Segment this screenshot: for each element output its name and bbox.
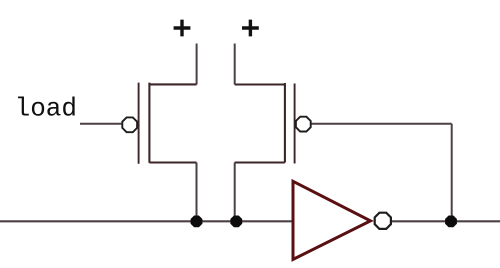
op-amp U1 inverter triangle <box>293 181 391 259</box>
wire: load gate wire <box>80 123 121 125</box>
wire: Q1 source to V+ <box>196 44 198 85</box>
node junction dot 3 <box>445 216 457 228</box>
svg-text:load: load <box>15 94 77 124</box>
node load label <box>15 94 77 124</box>
wire: feedback vertical <box>451 124 453 222</box>
wire: inverter output to right edge <box>389 220 500 222</box>
transistor Q1 (left PMOS) <box>122 83 196 164</box>
power V+ symbol left <box>174 20 191 37</box>
wire: feedback horizontal to Q2 gate <box>311 123 452 125</box>
wire: bus from left edge to inverter input <box>0 220 293 222</box>
power V+ symbol right <box>242 20 259 37</box>
node junction dot 2 <box>230 216 242 228</box>
wire: Q2 source to V+ <box>234 44 236 85</box>
node junction dot 1 <box>191 216 203 228</box>
wire: Q2 drain to bus <box>234 163 236 222</box>
transistor Q2 (right PMOS, mirrored) <box>235 83 311 164</box>
wire: Q1 drain to bus <box>196 163 198 222</box>
